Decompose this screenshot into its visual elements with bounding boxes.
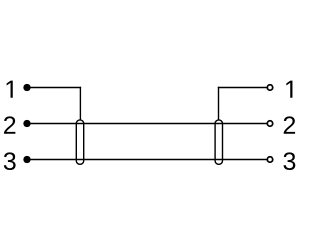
pin label 2 (right) (284, 116, 295, 133)
pin label 3 (left) (4, 152, 16, 170)
left pin 2 terminal dot (23, 120, 30, 127)
pin label 3 (right) (283, 152, 295, 170)
wire: right shield drop vertical (218, 87, 220, 121)
pin label 2 (left) (4, 116, 15, 133)
left pin 3 terminal dot (23, 156, 30, 163)
pin label 1 (right) (286, 81, 292, 98)
cable shield oval (left end) (76, 120, 83, 164)
wire: pin 2 conductor (left to right) (27, 123, 267, 125)
wire: left pin 1 horizontal to shield drop (27, 87, 81, 89)
right pin 2 terminal circle (267, 121, 272, 126)
right pin 1 terminal circle (267, 85, 272, 90)
wire: pin 3 conductor (left to right) (27, 159, 267, 161)
wire: right pin 1 horizontal from shield drop (218, 87, 267, 89)
cable shield oval (right end) (215, 120, 222, 164)
right pin 3 terminal circle (267, 157, 272, 162)
pin label 1 (left) (7, 81, 13, 98)
left pin 1 terminal dot (23, 84, 30, 91)
wire: left shield drop vertical (79, 87, 81, 121)
